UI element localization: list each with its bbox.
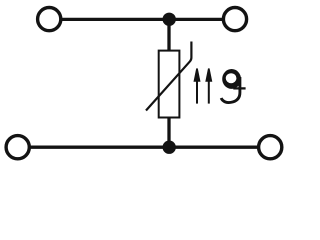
nonlinearity diagonal stroke — [146, 42, 191, 111]
terminal circle bottom-left — [6, 136, 29, 159]
theta temperature symbol — [221, 69, 245, 103]
increase arrow 2 — [205, 68, 212, 103]
terminal circle top-left — [38, 8, 61, 31]
bottom rail wire — [30, 146, 258, 149]
wire top lead — [167, 19, 170, 51]
junction dot bottom — [163, 141, 176, 154]
terminal circle top-right — [223, 8, 246, 31]
junction dot top — [163, 13, 176, 26]
wire bottom lead — [167, 118, 170, 148]
top rail wire — [60, 18, 223, 21]
terminal circle bottom-right — [259, 136, 282, 159]
thermistor body rectangle — [159, 51, 180, 118]
increase arrow 1 — [194, 68, 201, 103]
